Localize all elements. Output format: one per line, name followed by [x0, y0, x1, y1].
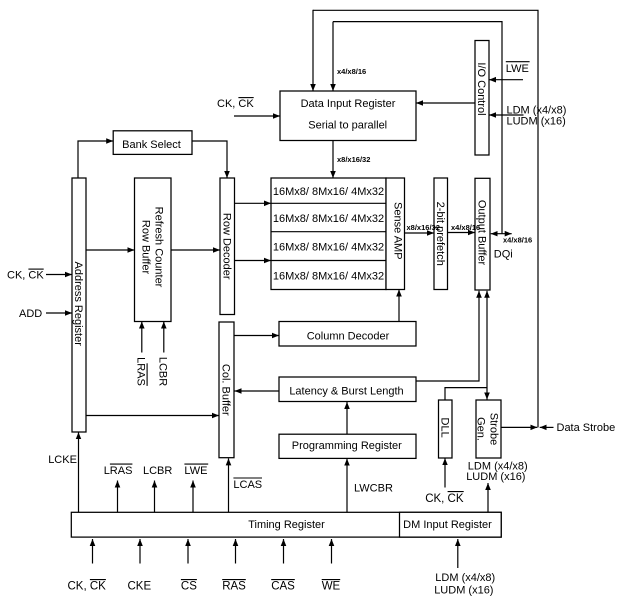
svg-text:RAS: RAS: [222, 580, 246, 592]
block Strobe Gen.: [475, 400, 501, 458]
wire LCAS to Col Buffer: [228, 458, 230, 512]
svg-text:x4/x8/16: x4/x8/16: [451, 223, 480, 232]
svg-text:x4/x8/16: x4/x8/16: [503, 236, 532, 245]
wire Row Decoder to array bank3: [235, 260, 272, 262]
wire Latency to Output Buffer: [416, 291, 479, 381]
wire CS pin arrow: [187, 539, 189, 564]
wire CK into DLL: [444, 458, 446, 487]
wire ADD into Address Register: [46, 312, 72, 314]
wire LCBR arrow into Refresh Counter bottom: [163, 322, 165, 353]
label CK, CK for Address Register: [7, 269, 44, 281]
wire CK pin arrow: [92, 539, 94, 564]
wire Data Strobe pad inward: [540, 426, 554, 428]
svg-text:LRAS: LRAS: [135, 357, 147, 386]
wire Latency to Col Buffer: [235, 390, 280, 392]
svg-text:DLL: DLL: [438, 418, 450, 438]
svg-text:LCKE: LCKE: [48, 454, 77, 466]
svg-text:x4/x8/16: x4/x8/16: [337, 67, 366, 76]
wire Programming Register to Latency: [346, 402, 348, 434]
svg-text:WE: WE: [322, 580, 341, 592]
label pin RAS: [222, 580, 246, 593]
wire Column Decoder to Sense AMP: [398, 290, 400, 322]
wire write-path outer loop top: [313, 10, 538, 427]
block U2 I/O Control: [475, 41, 489, 156]
block U1 Data Input Register: [280, 91, 416, 141]
svg-text:Row Decoder: Row Decoder: [220, 213, 232, 280]
wire Address Register to Bank Select: [78, 141, 113, 178]
wire LCBR arrow: [154, 481, 156, 513]
wire Bank Select to Row Decoder: [192, 141, 227, 178]
svg-text:ADD: ADD: [19, 308, 42, 320]
label LRAS: [104, 464, 133, 477]
svg-text:CAS: CAS: [271, 580, 295, 592]
svg-text:Address Register: Address Register: [72, 262, 84, 347]
wire Strobe Gen to Data Strobe pad: [501, 426, 537, 428]
svg-text:16Mx8/ 8Mx16/ 4Mx32: 16Mx8/ 8Mx16/ 4Mx32: [273, 242, 384, 254]
svg-text:Programming Register: Programming Register: [292, 440, 402, 452]
wire LWCBR to Programming Register: [346, 459, 348, 513]
svg-text:CK, CK: CK, CK: [68, 580, 107, 592]
block DLL: [438, 400, 452, 458]
block Column Decoder: [279, 322, 416, 347]
svg-text:Strobe: Strobe: [488, 413, 500, 445]
svg-text:LWE: LWE: [184, 465, 207, 477]
svg-text:CS: CS: [181, 580, 197, 592]
svg-text:x8/x16/32: x8/x16/32: [407, 223, 440, 232]
svg-text:Latency & Burst Length: Latency & Burst Length: [289, 385, 403, 397]
wire LDM into I/O Control: [489, 114, 524, 116]
label CK, CK for Data Input Register: [217, 98, 254, 110]
label pin WE: [322, 580, 341, 593]
svg-text:LWCBR: LWCBR: [354, 483, 393, 495]
label CK, CK for DLL: [425, 492, 464, 505]
svg-text:CKE: CKE: [128, 580, 152, 592]
wire LRAS arrow into Refresh Counter bottom: [141, 322, 143, 353]
svg-text:x8/x16/32: x8/x16/32: [337, 155, 370, 164]
svg-text:LCBR: LCBR: [143, 465, 172, 477]
wire CK into Data Input Register: [234, 115, 280, 117]
block Bank Select: [113, 131, 192, 155]
label LCBR vertical: [157, 357, 169, 386]
svg-text:Data Input Register: Data Input Register: [301, 98, 396, 110]
block memory array 4 banks: [271, 178, 386, 290]
svg-text:LUDM (x16): LUDM (x16): [466, 471, 525, 483]
label LRAS vertical: [135, 357, 148, 386]
label LCAS: [233, 478, 262, 491]
wire Row Decoder to array bank1: [235, 202, 272, 204]
label LWE: [184, 464, 208, 477]
wire arrow into Data Input Register top right: [332, 22, 334, 91]
block Sense AMP: [386, 178, 405, 290]
block 2-bit prefetch: [434, 178, 448, 290]
wire CKE pin arrow: [139, 539, 141, 564]
svg-text:Timing Register: Timing Register: [248, 519, 325, 531]
svg-text:Serial to parallel: Serial to parallel: [308, 119, 387, 131]
wire RAS pin arrow: [235, 539, 237, 564]
wire DLL to strobe vertical junction: [445, 388, 487, 400]
svg-text:Column Decoder: Column Decoder: [307, 331, 390, 343]
svg-text:LUDM (x16): LUDM (x16): [507, 115, 566, 127]
wire DQ bidirectional arrow: [491, 233, 512, 235]
svg-text:CK, CK: CK, CK: [217, 98, 254, 110]
svg-text:LWE: LWE: [506, 63, 529, 75]
svg-text:CK, CK: CK, CK: [7, 270, 44, 282]
block Output Buffer: [475, 178, 490, 290]
svg-text:LCBR: LCBR: [157, 357, 169, 386]
wire WE pin arrow: [331, 539, 333, 564]
svg-text:Row Buffer: Row Buffer: [139, 220, 151, 275]
block DM Input Register: [400, 512, 502, 537]
svg-text:LDM (x4/x8): LDM (x4/x8): [435, 572, 495, 584]
wire Sense AMP to 2-bit prefetch: [405, 232, 435, 234]
wire DM pin arrow: [457, 539, 459, 568]
svg-text:Sense AMP: Sense AMP: [391, 202, 403, 259]
block Latency & Burst Length: [279, 377, 416, 402]
svg-text:LCAS: LCAS: [233, 479, 262, 491]
block Programming Register: [279, 434, 416, 458]
wire I/O Control to Data Input Register: [416, 102, 475, 104]
svg-text:LUDM (x16): LUDM (x16): [434, 584, 493, 596]
wire Data Input Register to memory array: [332, 141, 334, 179]
svg-text:Bank Select: Bank Select: [122, 139, 181, 151]
wire LWE arrow: [192, 481, 194, 513]
wire LWE into I/O Control: [489, 79, 523, 81]
svg-text:16Mx8/ 8Mx16/ 4Mx32: 16Mx8/ 8Mx16/ 4Mx32: [273, 213, 384, 225]
svg-text:DM Input Register: DM Input Register: [403, 519, 492, 531]
block Address Register: [72, 178, 86, 432]
svg-text:Refresh Counter: Refresh Counter: [152, 207, 164, 288]
label pin CS: [181, 580, 197, 593]
svg-text:Output Buffer: Output Buffer: [476, 200, 488, 266]
wire CAS pin arrow: [283, 539, 285, 564]
label pin CK, CK: [68, 580, 107, 593]
svg-text:Gen.: Gen.: [475, 417, 487, 441]
svg-text:CK, CK: CK, CK: [425, 493, 464, 505]
wire CK into Address Register: [46, 274, 72, 276]
block Col. Buffer: [219, 322, 234, 458]
wire Address Register to Col Buffer: [86, 415, 219, 417]
svg-text:LRAS: LRAS: [104, 465, 133, 477]
svg-text:2-bit prefetch: 2-bit prefetch: [434, 202, 446, 266]
label pin CAS: [271, 580, 295, 593]
wire prefetch to Output Buffer: [448, 232, 476, 234]
wire write-path inner loop top: [333, 22, 502, 234]
svg-text:Data Strobe: Data Strobe: [557, 422, 616, 434]
wire arrow into Data Input Register top left: [312, 10, 314, 91]
wire Col Buffer to Column Decoder: [234, 335, 279, 337]
wire LCKE to Address Register: [78, 432, 80, 512]
wire Address Register to Refresh Counter: [86, 249, 135, 251]
svg-text:DQi: DQi: [494, 249, 513, 261]
svg-text:I/O Control: I/O Control: [475, 62, 487, 115]
wire Refresh Counter to Row Decoder: [171, 249, 220, 251]
wire DLL/OutputBuffer/StrobeGen vertical: [486, 291, 488, 400]
block Row Decoder: [220, 178, 235, 315]
svg-text:16Mx8/ 8Mx16/ 4Mx32: 16Mx8/ 8Mx16/ 4Mx32: [273, 270, 384, 282]
wire DM Input Register to Strobe Gen: [487, 483, 489, 512]
label LWE input: [506, 62, 530, 75]
wire LRAS arrow: [117, 481, 119, 513]
block Refresh Counter / Row Buffer: [135, 178, 172, 322]
svg-text:Col. Buffer: Col. Buffer: [220, 364, 232, 416]
block Timing Register: [71, 512, 501, 537]
svg-text:16Mx8/ 8Mx16/ 4Mx32: 16Mx8/ 8Mx16/ 4Mx32: [273, 186, 384, 198]
